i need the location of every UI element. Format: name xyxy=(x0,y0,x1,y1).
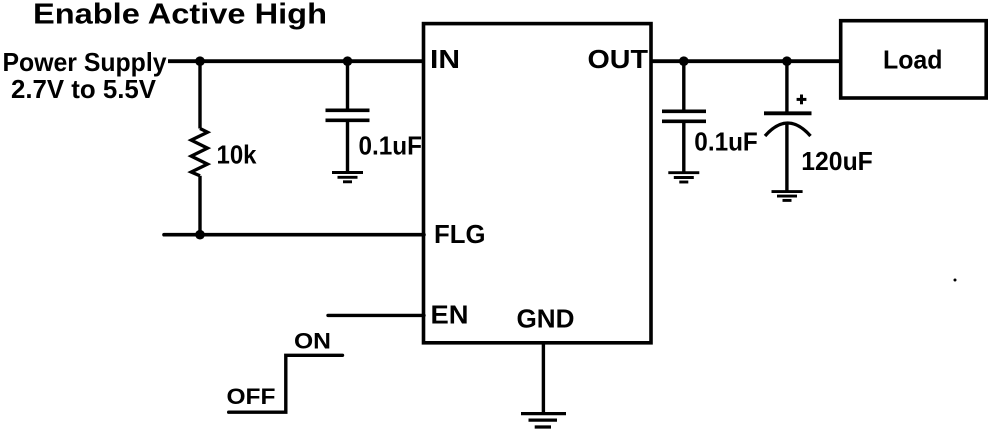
svg-text:FLG: FLG xyxy=(434,219,486,249)
wire: GND pin lead xyxy=(542,343,545,413)
wire: FLG rail xyxy=(164,233,424,237)
svg-text:EN: EN xyxy=(431,299,469,329)
polarity plus sign xyxy=(797,95,807,105)
wire: input rail from Power Supply to IN pin xyxy=(168,59,424,63)
load box xyxy=(841,21,987,98)
svg-text:Power Supply: Power Supply xyxy=(3,47,168,77)
ground: input cap ground symbol xyxy=(332,173,363,182)
svg-text:OUT: OUT xyxy=(588,44,649,74)
ground: output cap ground symbol xyxy=(668,173,699,182)
svg-text:2.7V to 5.5V: 2.7V to 5.5V xyxy=(11,74,157,104)
node junction dot at resistor branch xyxy=(195,56,205,66)
node junction dot at input cap branch xyxy=(343,56,353,66)
svg-text:Enable Active High: Enable Active High xyxy=(33,0,327,30)
svg-text:120uF: 120uF xyxy=(801,146,873,176)
svg-text:0.1uF: 0.1uF xyxy=(359,131,423,161)
node junction dot at FLG/resistor xyxy=(195,230,205,240)
wire: resistor top lead xyxy=(198,61,201,129)
svg-text:10k: 10k xyxy=(217,139,257,169)
capacitor C3 curved bottom plate xyxy=(765,123,811,136)
ground: bulk cap ground symbol xyxy=(772,192,803,201)
wire: OUT rail to Load xyxy=(651,59,839,63)
wire: output cap bottom lead xyxy=(682,121,685,172)
svg-text:ON: ON xyxy=(294,329,331,354)
svg-text:Load: Load xyxy=(883,45,943,75)
node junction dot at output cap branch xyxy=(679,56,689,66)
wire: output cap top lead xyxy=(682,61,685,111)
svg-text:OFF: OFF xyxy=(227,384,276,409)
wire: EN pin lead xyxy=(328,314,424,317)
svg-text:GND: GND xyxy=(517,304,575,334)
IC U1 body xyxy=(424,24,652,343)
svg-text:0.1uF: 0.1uF xyxy=(694,127,758,157)
node junction dot at bulk cap branch xyxy=(782,56,792,66)
enable step waveform OFF->ON xyxy=(229,355,343,412)
stray speck xyxy=(954,279,957,282)
wire: input cap top lead xyxy=(346,61,349,110)
resistor R1 10k zigzag xyxy=(191,129,207,176)
capacitor C3 120uF polarized: straight top plate xyxy=(764,111,812,115)
capacitor C1 0.1uF input plates xyxy=(326,109,370,113)
ground: IC ground symbol (large) xyxy=(521,414,566,427)
svg-text:IN: IN xyxy=(430,44,460,74)
wire: bulk cap top lead xyxy=(785,61,788,113)
wire: bulk cap bottom lead xyxy=(785,124,788,192)
capacitor C2 0.1uF output plates xyxy=(662,110,706,114)
wire: resistor bottom lead to FLG rail xyxy=(198,176,201,235)
wire: input cap bottom lead xyxy=(346,120,349,172)
